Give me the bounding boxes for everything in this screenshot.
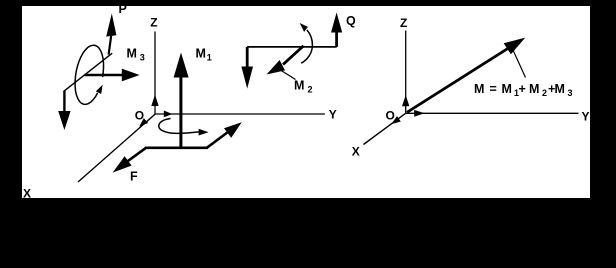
svg-text:P: P (119, 2, 127, 16)
force Q arrow (up) (331, 13, 342, 47)
X direction arrowhead (middle) (139, 118, 148, 126)
svg-text:=: = (490, 82, 497, 96)
axis X (middle frame) (78, 114, 156, 182)
svg-text:X: X (23, 187, 31, 201)
svg-text:3: 3 (140, 53, 145, 63)
label M = M1+M2+M3 (474, 82, 573, 98)
moment M1 arrow (174, 53, 189, 148)
X direction arrowhead (right) (391, 116, 401, 124)
moment M3 arrow (85, 69, 140, 82)
resultant moment M arrow (407, 38, 525, 113)
svg-text:O: O (386, 108, 395, 122)
transferred force arrow (up-right) (207, 122, 242, 148)
svg-text:M: M (196, 47, 206, 61)
svg-text:X: X (352, 145, 360, 159)
couple connector line (Q couple) (247, 46, 336, 48)
svg-text:2: 2 (542, 88, 547, 98)
svg-text:Fig. 1.29: Fig. 1.29 (271, 224, 340, 236)
force P arrow (106, 13, 116, 54)
Z direction arrowhead (middle) (151, 95, 158, 107)
svg-text:M: M (294, 79, 304, 93)
svg-text:M: M (529, 82, 539, 96)
svg-text:M: M (127, 47, 137, 61)
axis Z (right frame) (405, 31, 407, 113)
svg-text:Z: Z (400, 16, 407, 30)
Y direction arrowhead (middle) (164, 111, 173, 118)
axis Y (right frame) (406, 112, 579, 114)
Y direction arrowhead (right) (414, 110, 424, 117)
moment M2 arrow (267, 46, 304, 75)
couple arm (left diagonal line) (64, 53, 112, 91)
svg-text:Q: Q (346, 14, 356, 28)
svg-text:M: M (474, 82, 484, 96)
svg-text:1: 1 (207, 53, 212, 63)
rotation arc around M3 axis (75, 45, 103, 104)
Z direction arrowhead (right) (402, 95, 409, 106)
leader line to label M (513, 49, 526, 78)
rotation arc around M1 axis (159, 119, 209, 136)
axis Z (middle frame) (154, 32, 156, 114)
svg-text:F: F (130, 170, 138, 184)
svg-text:2: 2 (308, 85, 313, 95)
svg-text:Z: Z (150, 15, 157, 29)
white diagram panel (22, 6, 590, 198)
force F arrow (113, 148, 146, 173)
svg-text:Y: Y (329, 108, 337, 122)
force -P arrow (down) (58, 91, 70, 131)
leader line to label M2 (280, 70, 296, 80)
axis X (right frame) (364, 113, 407, 145)
svg-text:+: + (519, 82, 526, 96)
force -Q arrow (down) (241, 47, 253, 89)
svg-text:M: M (555, 82, 565, 96)
rotation arc around M2 axis (300, 23, 313, 63)
svg-text:Y: Y (582, 110, 590, 124)
svg-text:3: 3 (568, 88, 573, 98)
axis Y (middle frame) (155, 113, 325, 115)
force transfer line (horizontal) (145, 147, 208, 150)
svg-text:M: M (502, 82, 512, 96)
